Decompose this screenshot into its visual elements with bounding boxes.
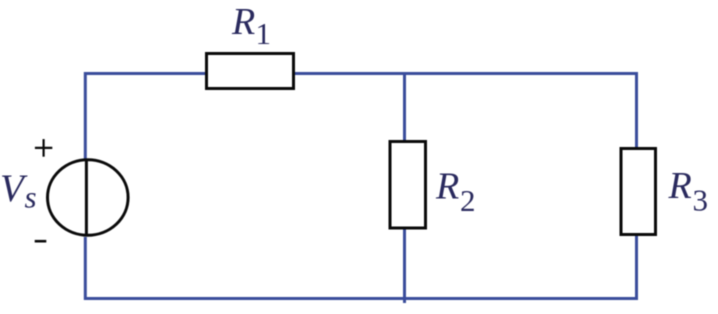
wire right vertical lower (R3 bottom to bottom net) xyxy=(635,235,638,300)
resistor R2 (body) xyxy=(390,142,426,229)
polarity minus sign xyxy=(35,240,47,243)
svg-text:1: 1 xyxy=(256,16,272,51)
wire right vertical upper (node B to R3 top) xyxy=(635,72,638,148)
wire middle vertical lower (R2 bottom to bottom net) xyxy=(403,228,406,303)
voltage source Vs (circle symbol) xyxy=(48,160,129,235)
wire top horizontal (node A: Vs+ to R1 to node B) xyxy=(85,72,637,75)
wire left vertical lower (Vs- to bottom-left corner) xyxy=(84,237,87,300)
wire left vertical upper (Vs+ to top-left corner) xyxy=(84,72,87,161)
label R2 xyxy=(435,166,476,218)
svg-text:R: R xyxy=(435,166,459,208)
label R3 xyxy=(668,165,709,218)
svg-text:3: 3 xyxy=(693,183,709,218)
svg-text:s: s xyxy=(25,180,37,215)
label R1 xyxy=(231,1,271,51)
wire middle vertical upper (node B to R2 top) xyxy=(403,72,406,142)
svg-text:R: R xyxy=(668,165,692,207)
polarity plus sign xyxy=(35,139,52,157)
resistor R3 (body) xyxy=(621,149,656,235)
resistor R1 (body) xyxy=(207,54,294,89)
svg-text:2: 2 xyxy=(460,183,476,218)
wire bottom horizontal (bottom net) xyxy=(84,297,637,300)
svg-text:R: R xyxy=(231,1,255,43)
label Vs xyxy=(0,167,37,214)
